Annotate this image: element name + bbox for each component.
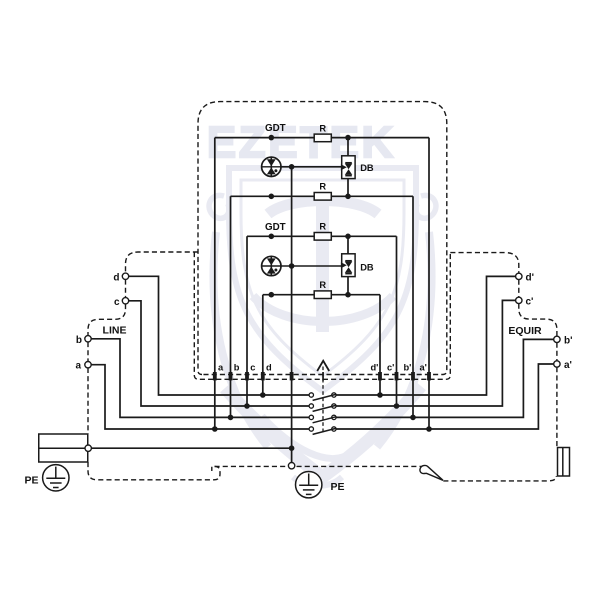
junction node PE bus [289,445,295,451]
wire: DB1 bottom [347,179,349,197]
node b (LINE) [85,336,91,342]
wire: line a pair (row1) a to a' [215,137,429,139]
svg-text:c: c [250,363,255,373]
node c' (EQUIP) [516,297,522,303]
junction node row1/GDT1 [269,135,275,141]
svg-text:a': a' [564,360,572,371]
svg-text:EZETEK: EZETEK [207,119,394,167]
node d (LINE) [122,273,128,279]
wire: a vertical [214,138,216,429]
wire: GDT1 mid-electrode to DB1 [281,166,342,168]
diode block DB1 [341,156,355,179]
svg-text:R: R [319,222,326,232]
wire: DB2 bottom [347,277,349,295]
svg-text:R: R [319,123,326,133]
svg-text:b': b' [404,363,412,373]
svg-text:a': a' [420,363,427,373]
terminal pin b [229,372,233,380]
node PE left [85,445,91,451]
wire: d' vertical [379,295,381,395]
junction node row2/GDT1 [269,194,275,200]
svg-text:d: d [266,363,272,373]
junction node rail3/b' [410,415,416,421]
wire: c' vertical [396,236,398,406]
resistor R4 [314,291,331,299]
housing outline right branch to terminals d',c' [450,253,557,448]
wire: b' vertical [412,196,414,417]
svg-text:DB: DB [360,262,374,272]
disconnect switch S2 on rail2 [309,404,336,412]
junction node GDT1 mid / earth wire [289,164,295,170]
node c (LINE) [122,298,128,304]
svg-text:d': d' [371,363,379,373]
wire: DB1 top [347,138,349,156]
resistor R2 [314,193,331,201]
junction node row2/DB1 [345,194,351,200]
housing outline left branch to terminals d,c [88,252,198,434]
svg-text:DB: DB [360,163,374,173]
svg-text:b: b [234,363,240,373]
svg-text:LINE: LINE [103,324,127,336]
terminal pin d' [378,372,382,380]
svg-text:b: b [76,335,82,346]
housing bottom-right dashed outline [443,476,556,481]
junction node row4/DB2 [345,292,351,298]
svg-text:PE: PE [24,474,38,486]
svg-text:R: R [319,280,326,290]
svg-text:GDT: GDT [265,123,286,134]
svg-text:d': d' [526,272,535,283]
svg-text:b': b' [564,335,573,346]
junction node rail2/c [244,403,250,409]
gas discharge tube GDT2 [262,256,281,275]
junction node rail4/a' [426,426,432,432]
wire: DB2 top [347,236,349,254]
disconnect switch S1 on rail1 [309,393,336,401]
svg-text:c': c' [387,363,394,373]
wire: line d pair (row4) d to d' [263,294,380,296]
terminal pin c [245,372,249,380]
junction node GDT2 mid / earth wire [289,263,295,269]
wire: line b pair (row2) b to b' [231,195,414,197]
terminal pin a' [427,372,431,380]
node PE center [288,463,294,469]
rail 3: LINE b to EQUIP b' [91,339,554,418]
svg-text:c': c' [526,296,534,307]
rail 4: LINE a to EQUIP a' [91,364,554,429]
svg-text:a: a [218,363,224,373]
terminal pin c' [395,372,399,380]
rail 2: LINE c to EQUIP c' [129,300,516,406]
protection module dashed enclosure [198,102,447,375]
junction node rail4/a [212,426,218,432]
module socket dashed outline [194,252,450,379]
housing bottom-left dashed outline with DIN notch [88,462,220,480]
svg-text:PE: PE [331,481,345,493]
node d' (EQUIP) [516,273,522,279]
svg-text:R: R [319,182,326,192]
terminal pin trip-linkage [322,372,324,381]
wire: c vertical [246,236,248,406]
svg-text:a: a [75,361,81,372]
junction node row4/GDT2 [269,292,275,298]
wire: PE bus horizontal [91,447,291,449]
rail 1: LINE d to EQUIP d' [129,276,516,395]
svg-text:EQUIR: EQUIR [508,325,542,337]
junction node rail3/b [228,415,234,421]
node b' (EQUIP) [554,336,560,342]
junction node row3/DB2 [345,234,351,240]
right DIN mount tab [558,448,570,477]
node a' (EQUIP) [554,361,560,367]
gas discharge tube GDT1 [262,157,281,176]
wire: line c pair (row3) c to c' [247,235,397,237]
diode block DB2 [341,254,355,277]
terminal pin earth [290,372,294,380]
left PE earth symbol [43,465,69,491]
left PE terminal block [39,434,88,462]
wire: GDT common earth vertical [291,167,293,448]
wire: d vertical [262,295,264,395]
svg-text:d: d [113,272,119,283]
resistor R3 [314,233,331,241]
WATERMARK [207,119,436,486]
terminal pin a [213,372,217,380]
disconnect switch S4 on rail4 [309,427,336,435]
node a (LINE) [85,362,91,368]
svg-text:c: c [114,297,120,308]
junction node row1/DB1 [345,135,351,141]
center PE earth symbol [296,472,322,498]
terminal pin b' [411,372,415,380]
DIN rail release clip [420,465,443,480]
wire: GDT2 mid-electrode to DB2 [281,265,342,267]
wire: b vertical [230,196,232,417]
junction node rail2/c' [394,403,400,409]
wire: PE drop to housing [291,448,293,462]
junction node row3/GDT2 [269,234,275,240]
thermal trip indicator arrow [317,361,329,371]
disconnect switch S3 on rail3 [309,415,336,423]
housing bottom-center dashed outline [215,465,425,467]
svg-text:GDT: GDT [265,222,286,233]
trip linkage dashed [322,367,324,435]
junction node rail1/d [260,392,266,398]
resistor R1 [314,134,331,142]
junction node rail1/d' [377,392,383,398]
wire: a' vertical [428,138,430,429]
terminal pin d [261,372,265,380]
